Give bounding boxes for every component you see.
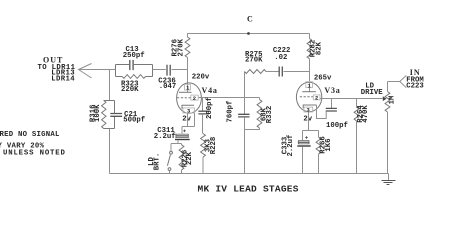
svg-text:270K: 270K [178, 38, 186, 56]
wire V4a grid to node X [198, 97, 259, 99]
V3a grid pin 2 [300, 96, 313, 98]
svg-text:265v: 265v [314, 75, 332, 83]
IN arrow from C223 [400, 76, 407, 88]
resistor R323 / capacitor C13 parallel box [116, 65, 153, 77]
wire under C311 [171, 140, 182, 151]
svg-text:R228: R228 [210, 137, 218, 155]
svg-text:2.2uf: 2.2uf [287, 135, 295, 157]
svg-text:270K: 270K [245, 57, 263, 65]
svg-text:2v: 2v [182, 116, 191, 124]
ground symbol [388, 174, 390, 181]
svg-text:760pf: 760pf [227, 101, 235, 123]
svg-text:100K: 100K [94, 104, 102, 122]
svg-text:LDR14: LDR14 [51, 76, 75, 84]
capacitor 760pf [238, 114, 249, 117]
capacitor 260pf [202, 98, 204, 112]
resistor R316 / capacitor C21 parallel loop [104, 101, 115, 129]
svg-text:1M: 1M [388, 95, 396, 104]
capacitor 100pf [331, 99, 333, 109]
capacitor C311 2.2uf polarized [183, 130, 186, 133]
V3a cathode pin 3 [303, 105, 316, 108]
svg-text:2.2uf: 2.2uf [154, 133, 176, 141]
potentiometer LD DRIVE 1M [387, 82, 389, 92]
svg-text:.02: .02 [274, 54, 287, 62]
svg-text:100pf: 100pf [326, 122, 348, 130]
svg-text:2: 2 [193, 96, 196, 102]
triode V4a envelope [177, 83, 202, 113]
svg-text:260pf: 260pf [206, 97, 214, 119]
resistor R282 82K [309, 34, 311, 39]
V3a plate pin 1 [309, 72, 311, 92]
wire branch to R316/C21 [109, 70, 111, 101]
svg-text:220K: 220K [121, 86, 139, 94]
svg-text:1K6: 1K6 [325, 138, 333, 151]
pot wiper arrow [383, 96, 387, 101]
svg-text:DRIVE: DRIVE [361, 89, 384, 97]
wire node X vertical [244, 72, 246, 115]
capacitor C13 plates [130, 60, 133, 70]
svg-text:22K: 22K [186, 151, 194, 165]
svg-text:MK IV LEAD STAGES: MK IV LEAD STAGES [198, 184, 299, 195]
V4a grid pin 2 [177, 97, 191, 99]
resistor R228 3K3 [201, 134, 206, 158]
svg-text:R332: R332 [266, 106, 274, 124]
wire V4a cathode to C311 [182, 113, 195, 134]
triode V3a envelope [296, 82, 321, 112]
svg-text:220v: 220v [192, 74, 210, 82]
svg-text:V3a: V3a [324, 86, 340, 95]
resistor R226 22K [179, 145, 184, 170]
V4a plate pin 1 [187, 84, 189, 92]
svg-text:250pf: 250pf [123, 52, 145, 60]
svg-text:1: 1 [308, 83, 311, 89]
svg-text:.047: .047 [159, 83, 177, 91]
svg-text:C223: C223 [406, 83, 424, 91]
OUT arrow to LDRs [79, 64, 92, 79]
svg-text:470K: 470K [362, 105, 370, 123]
resistor R275 270K [245, 70, 267, 74]
wire V3a cathode tee [303, 112, 319, 140]
wire V3a grid to LD DRIVE wiper [320, 98, 383, 100]
svg-text:RED NO SIGNAL: RED NO SIGNAL [0, 131, 60, 139]
capacitor C333 2.2uf polarized [305, 136, 308, 139]
svg-text:1: 1 [186, 86, 189, 92]
capacitor C21 plates [110, 114, 122, 117]
svg-text:BRT.: BRT. [154, 153, 162, 171]
resistor R266 1K6 [316, 137, 321, 154]
resistor R276 270K [187, 34, 189, 38]
node C junction dot [247, 32, 250, 35]
wire out [80, 69, 116, 71]
resistor R264 470K [356, 99, 358, 108]
wire bottom ground rail [110, 173, 389, 175]
svg-text:V4a: V4a [202, 86, 218, 95]
switch LD BRT [170, 151, 173, 154]
svg-text:2: 2 [315, 95, 318, 101]
svg-text:UNLESS NOTED: UNLESS NOTED [3, 149, 66, 157]
resistor R332 68K [259, 98, 261, 100]
wire top rail B+ node [188, 33, 310, 35]
svg-text:82K: 82K [315, 41, 323, 55]
svg-text:C: C [247, 15, 253, 24]
capacitor C236 .047 [153, 69, 166, 71]
V4a cathode pin 3 [182, 105, 194, 109]
svg-text:500pf: 500pf [123, 117, 145, 125]
capacitor C222 .02 [266, 71, 279, 73]
